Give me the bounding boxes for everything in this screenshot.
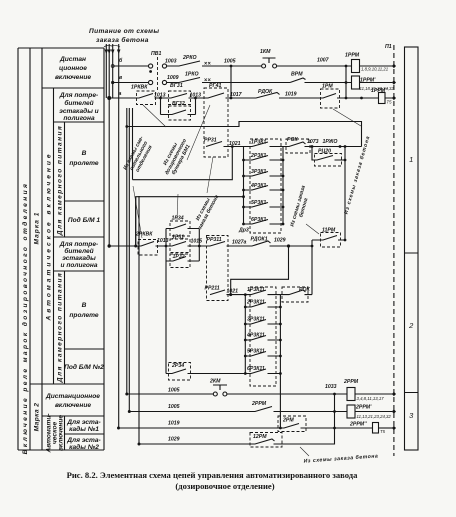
svg-text:Марка 2: Марка 2	[34, 403, 41, 432]
svg-text:1РКВК: 1РКВК	[131, 85, 148, 91]
bus wire 1029 (rung D feed)	[138, 196, 140, 444]
dashed box contact 1РКВК	[137, 91, 156, 105]
annotation: Из схемы заказа бетона (center)	[289, 185, 312, 229]
contact РОК (bank 2)	[280, 290, 312, 295]
supply bus wire 1	[105, 44, 107, 98]
nodes on wire 1073	[231, 145, 346, 148]
link wire rungs A-C right	[334, 394, 336, 428]
contact 5Р3К11	[245, 352, 280, 357]
svg-text:2РКО: 2РКО	[182, 55, 197, 61]
contact 6Р3К1	[244, 220, 284, 225]
contact 1Р3К11	[245, 290, 280, 295]
svg-text:1013: 1013	[157, 238, 169, 244]
supply bus wire 4	[118, 44, 120, 428]
relay coil 2РРМ'	[347, 405, 355, 418]
nodes 11РМ	[311, 239, 347, 248]
svg-text:1Р34: 1Р34	[172, 216, 184, 222]
svg-text:1013: 1013	[154, 92, 166, 98]
feed brace	[104, 45, 120, 47]
contact 2РКО with wire 1003	[167, 61, 262, 66]
dashed box contact РОК (bank 1)	[286, 139, 310, 153]
svg-text:В: В	[82, 150, 87, 157]
svg-text:включение: включение	[58, 415, 65, 451]
wire 1007 to coil 1РРМ	[277, 65, 352, 67]
svg-text:Т5: Т5	[380, 429, 386, 434]
svg-text:1013: 1013	[190, 92, 202, 98]
dashed box contact 1РМ	[321, 89, 340, 108]
svg-text:1РРМ: 1РРМ	[345, 53, 360, 59]
svg-text:2РРМ'': 2РРМ''	[349, 422, 367, 428]
svg-text:РДОК1: РДОК1	[251, 237, 268, 243]
node: rung R2 tap	[111, 81, 114, 84]
svg-text:кады №1: кады №1	[69, 425, 99, 433]
svg-text:1Р3К11: 1Р3К11	[247, 287, 265, 293]
push button 1КМ	[262, 58, 277, 68]
dashed box contact ВГ32	[169, 106, 191, 120]
svg-text:1007: 1007	[317, 58, 330, 64]
svg-text:а: а	[119, 91, 122, 97]
feedback wire rung 4 to node 1021 (bank 2)	[231, 246, 289, 295]
svg-text:РР31: РР31	[204, 138, 217, 144]
svg-text:кады №2: кады №2	[69, 443, 99, 451]
nodes on rung 4	[165, 244, 291, 247]
svg-text:1,8,9,10,11,21: 1,8,9,10,11,21	[361, 67, 389, 72]
table cell: Дистанционное включение (Марка 2)	[45, 393, 100, 409]
svg-text:Дистанционное: Дистанционное	[45, 393, 100, 400]
dashed box contact 2РМ	[278, 416, 306, 432]
dashed box contact РЦ20	[315, 154, 342, 167]
svg-text:1021: 1021	[227, 289, 239, 295]
contact 2РМ on rung C	[119, 424, 373, 429]
svg-text:11,13,21,23,24,32: 11,13,21,23,24,32	[357, 414, 392, 419]
svg-text:Для потре-: Для потре-	[59, 241, 98, 248]
svg-text:2: 2	[408, 321, 414, 330]
svg-text:6Р3К11: 6Р3К11	[247, 366, 265, 372]
switch ПВ1 mechanical link (dashed)	[157, 57, 159, 90]
svg-text:4Р3К1: 4Р3К1	[250, 183, 266, 189]
svg-text:1РРМ': 1РРМ'	[360, 78, 376, 84]
bank 1 right vertical wire	[282, 147, 284, 225]
svg-text:1005: 1005	[168, 388, 180, 394]
dashed box contact 1Р34	[170, 221, 190, 236]
bus connection diamonds	[392, 64, 396, 430]
contact 2РРМ on rung B	[129, 407, 347, 412]
svg-text:2РРМ: 2РРМ	[343, 379, 359, 385]
dashed box contact 1Р31	[170, 239, 190, 253]
wire rung C to right bus	[379, 427, 393, 429]
dashed box contact 11РМ	[321, 233, 341, 248]
contact 4Р3К1	[244, 186, 284, 191]
svg-text:ВГ32: ВГ32	[172, 101, 185, 107]
contact 1РКО aux marks	[205, 79, 211, 81]
push button 2КМ	[213, 385, 227, 396]
svg-text:Для эста-: Для эста-	[66, 437, 101, 444]
wire rung B to right bus	[355, 411, 392, 413]
bank 2 left vertical wire	[244, 295, 246, 374]
contact 2Р3К1	[244, 156, 284, 161]
svg-text:бителей: бителей	[64, 99, 93, 107]
svg-text:эстакады: эстакады	[62, 254, 96, 262]
wire rung R2 left segment	[113, 82, 149, 84]
contact РОК (bank 1) and wire 1073	[283, 142, 362, 147]
relay coil 1РРМ	[352, 60, 360, 73]
svg-text:1009: 1009	[167, 75, 179, 81]
svg-text:В: В	[82, 302, 87, 309]
bus wire 1005 (rung A feed)	[126, 108, 128, 394]
svg-text:1РКО: 1РКО	[185, 72, 199, 78]
svg-text:и полигона: и полигона	[60, 262, 97, 269]
annotation leader lines	[133, 105, 361, 456]
wire rung A to right bus	[355, 393, 392, 395]
wire rung R1 left segment	[113, 65, 149, 67]
wire rung A 1005 left	[127, 393, 214, 395]
supply bus wire 2	[108, 44, 110, 246]
svg-text:ВРМ: ВРМ	[291, 72, 303, 78]
svg-text:полигона: полигона	[63, 115, 95, 122]
relay coil 1РРМ''	[379, 93, 386, 104]
svg-text:эстакады и: эстакады и	[59, 107, 98, 115]
svg-text:(дозировочное отделение): (дозировочное отделение)	[175, 481, 274, 491]
link wire 11РМ to РОК bank 2	[311, 240, 313, 295]
svg-text:4Р3К11: 4Р3К11	[246, 333, 265, 339]
wire rung R1 to right bus	[360, 65, 393, 67]
svg-text:ционное: ционное	[59, 65, 87, 72]
dashed box contact РОК (bank 2)	[282, 287, 308, 302]
svg-text:6Р3К1: 6Р3К1	[251, 217, 266, 223]
wire and component reference labels	[131, 44, 392, 443]
node 1005 on rung R1	[230, 65, 233, 68]
node: rung B tap	[128, 410, 131, 413]
node: rung C tap	[117, 427, 120, 430]
svg-text:1019: 1019	[285, 92, 297, 98]
svg-text:3Р3К11: 3Р3К11	[247, 317, 265, 323]
dashed box contact ВГ31	[169, 91, 191, 105]
annotation: Из схемы заказа бетона (left)	[192, 191, 220, 230]
svg-text:1033: 1033	[325, 384, 337, 390]
svg-text:включение: включение	[55, 402, 91, 409]
svg-text:2РРМ: 2РРМ	[251, 401, 267, 407]
svg-text:включение: включение	[55, 74, 91, 81]
contact 2Р34 chain to bank 2 row 6	[166, 261, 245, 374]
relay coil 1РРМ'	[352, 76, 360, 89]
bus wire 1005 (rung B feed)	[128, 108, 130, 412]
contact 12РМ on rung D	[139, 428, 335, 444]
bus wire feed W2	[132, 108, 134, 180]
dashed box contact 12РМ	[250, 433, 282, 448]
svg-text:3Р3К1: 3Р3К1	[251, 169, 266, 175]
contact ВГ32 parallel branch	[161, 98, 196, 115]
svg-text:1Р3К1: 1Р3К1	[251, 140, 266, 146]
switch ПВ1 pole 1 terminals	[149, 64, 167, 68]
table cell: Для эстакады №2	[66, 437, 101, 451]
table cell: Для потребителей эстакады и полигона (1)	[59, 92, 99, 122]
svg-text:1073: 1073	[307, 139, 319, 145]
svg-text:1Р32: 1Р32	[173, 254, 185, 260]
dashed box РГ41-РР31 group	[204, 88, 228, 157]
svg-text:бителей: бителей	[64, 247, 93, 255]
node: rung R1 tap (circle)	[111, 65, 114, 68]
bank 2 right vertical wire	[279, 295, 281, 428]
dashed box contact 1Р32	[170, 254, 190, 268]
svg-text:1029: 1029	[274, 238, 286, 244]
nodes on rung R3	[159, 97, 363, 100]
contact 2РКО aux marks	[205, 62, 211, 64]
svg-text:1029: 1029	[168, 437, 180, 443]
svg-text:1017: 1017	[230, 92, 243, 98]
svg-text:пролете: пролете	[69, 160, 99, 167]
svg-text:ПВ1: ПВ1	[151, 51, 161, 57]
svg-text:РДОК: РДОК	[258, 89, 273, 95]
contacts 2РКВК, 1Р31, РР311, РДОК1 on rung 4	[109, 241, 312, 246]
contact 1РКО with wire 1009	[167, 78, 290, 83]
contact 3Р3К11	[245, 320, 280, 325]
svg-text:Включение реле марок дозировоч: Включение реле марок дозировочного отдел…	[21, 182, 29, 455]
contact 1Р34 parallel branch above	[166, 224, 199, 246]
table cell: Дистанционное включение (Марка 1)	[55, 56, 91, 81]
svg-text:2Р3К11: 2Р3К11	[246, 300, 265, 306]
svg-text:5Р3К1: 5Р3К1	[251, 200, 266, 206]
svg-text:заказа бетона: заказа бетона	[96, 36, 149, 44]
nodes on link wire	[345, 65, 348, 84]
contact 2Р3К11	[245, 303, 280, 308]
contact 1РКВК / contact ВГ31 / contact РГ41 / contact РДОК rung R3	[109, 93, 392, 99]
annotation: Из схемы смесительного отделения	[122, 135, 156, 177]
svg-text:5Р3К11: 5Р3К11	[247, 349, 265, 355]
link wire РЦ20 to 11РМ	[344, 147, 346, 241]
svg-text:Для камерного питания: Для камерного питания	[57, 272, 64, 383]
wire W1 from bus to node 1073	[127, 122, 362, 147]
svg-text:11,18,21,23,24,32: 11,18,21,23,24,32	[360, 86, 395, 91]
svg-text:Для потре-: Для потре-	[59, 92, 98, 99]
svg-text:12РМ: 12РМ	[253, 434, 267, 440]
table column label: Автоматическое включение (Марка 2)	[46, 413, 65, 453]
svg-text:2Р34: 2Р34	[171, 363, 184, 369]
zone bar	[405, 47, 419, 450]
wire W3 from rung 4 to bank 1	[136, 197, 244, 246]
svg-text:Автоматическое включение: Автоматическое включение	[45, 151, 52, 321]
svg-text:Марка 1: Марка 1	[34, 212, 41, 245]
svg-text:1005: 1005	[168, 404, 180, 410]
svg-text:1005: 1005	[224, 59, 236, 65]
svg-text:1Р31: 1Р31	[172, 234, 184, 240]
dashed box bank 1 contacts	[250, 139, 281, 233]
svg-text:РР311: РР311	[207, 237, 222, 243]
wire rung R2 to right bus	[360, 82, 393, 84]
feed arrows onto supply buses	[105, 50, 121, 55]
contact 5Р3К1	[244, 203, 284, 208]
svg-text:1РЖО: 1РЖО	[323, 139, 338, 145]
link wire rungs R1-R3 right	[345, 66, 347, 98]
switch ПВ1 pole 2 terminals	[149, 80, 167, 84]
svg-text:Рис. 8.2. Элементная схема цеп: Рис. 8.2. Элементная схема цепей управле…	[67, 470, 359, 480]
dashed box bank 2 contacts	[250, 287, 276, 386]
annotation: Из схемы заказа бетона (right)	[342, 135, 371, 215]
svg-text:3,4,8,11,13,17: 3,4,8,11,13,17	[357, 396, 385, 401]
table cell: Для потребителей эстакады и полигона (2)	[59, 241, 98, 269]
svg-text:1027а: 1027а	[232, 240, 247, 246]
node РЦ20 output	[344, 159, 347, 162]
dashed box contact 2Р34	[169, 363, 191, 381]
contact РР31 and wire 1021	[206, 142, 244, 147]
svg-text:Питание от схемы: Питание от схемы	[89, 28, 159, 35]
relay coil 2РРМ	[347, 388, 355, 401]
nodes bottom link wire	[279, 393, 336, 430]
svg-text:пролете: пролете	[69, 312, 99, 319]
node: W1 tap	[125, 125, 128, 128]
svg-text:1003: 1003	[165, 59, 177, 65]
svg-text:1КМ: 1КМ	[260, 49, 271, 55]
dashed box РР311-РР211 group	[207, 236, 229, 301]
contact 1Р3К1	[244, 142, 284, 147]
node: W3 junction on rung 4	[134, 245, 137, 248]
svg-text:11РМ: 11РМ	[322, 228, 336, 234]
switch ПВ1 blade dot	[149, 70, 152, 73]
wire 1033 to coil 2РРМ	[227, 393, 347, 395]
bank 2 junction nodes	[244, 293, 282, 375]
supply bus wire 3	[112, 44, 114, 98]
table cell: В пролете (1)	[69, 150, 99, 167]
node: rung A tap	[125, 393, 128, 396]
svg-text:Дистан: Дистан	[59, 56, 86, 63]
svg-text:1021: 1021	[229, 141, 241, 147]
table cell: В пролете (2)	[69, 302, 99, 319]
contact 3Р3К1	[244, 172, 284, 177]
contact 6Р3К11	[245, 369, 280, 374]
table frame outer and column lines	[18, 48, 104, 450]
svg-text:в: в	[119, 75, 122, 81]
svg-text:РЦ20: РЦ20	[318, 149, 331, 155]
svg-text:ВГ31: ВГ31	[170, 83, 183, 89]
svg-text:Под Б/М 1: Под Б/М 1	[68, 216, 101, 224]
contact РР211 and node 1021	[210, 290, 245, 295]
contact РЦ20 branch	[312, 147, 345, 161]
relay coil 2РРМ''	[373, 423, 379, 434]
svg-text:РОК: РОК	[287, 137, 298, 143]
svg-text:РР211: РР211	[205, 286, 220, 292]
right control bus (dashed)	[393, 45, 395, 456]
svg-text:2КМ: 2КМ	[209, 379, 221, 385]
svg-text:2РМ: 2РМ	[282, 418, 294, 424]
annotation: Из схемы заказа бетона (bottom)	[303, 452, 378, 464]
svg-text:1015: 1015	[191, 239, 203, 245]
svg-text:П1: П1	[385, 44, 392, 50]
svg-text:Под Б/М №2: Под Б/М №2	[64, 363, 104, 371]
node: rung R3 tap	[107, 96, 111, 100]
svg-text:Для камерного питания: Для камерного питания	[57, 125, 64, 236]
svg-text:Т5: Т5	[387, 100, 393, 105]
contact 1Р32 parallel branch below	[166, 246, 199, 261]
svg-text:РГ41: РГ41	[209, 83, 222, 89]
contact 4Р3К11	[245, 336, 280, 341]
svg-text:Для эста-: Для эста-	[66, 419, 101, 426]
dashed box contact 2РКВК	[138, 240, 158, 256]
bank 1 junction nodes	[242, 159, 284, 226]
svg-text:1РМ: 1РМ	[322, 84, 333, 90]
node 1005-1017 link wire	[230, 66, 232, 98]
svg-text:1019: 1019	[168, 421, 180, 427]
svg-text:2РРМ': 2РРМ'	[355, 405, 372, 411]
svg-text:Др3: Др3	[238, 228, 249, 234]
node: rung D tap	[138, 443, 141, 446]
annotation: Из схемы дозировочного бункера БМ1	[159, 135, 193, 178]
wire W2 from bus to node 1021	[133, 147, 233, 180]
svg-text:2РКВК: 2РКВК	[135, 232, 153, 238]
svg-text:1: 1	[409, 155, 413, 164]
contact ВРМ	[290, 78, 352, 83]
bank 1 left vertical wire	[243, 147, 245, 225]
svg-text:2Р3К1: 2Р3К1	[250, 153, 266, 159]
bus wire W3 riser	[135, 197, 137, 246]
contact 11РМ branch	[312, 236, 345, 241]
feed label: Питание от схемы заказа бетона	[89, 28, 159, 44]
node: rung 4 tap	[108, 244, 111, 247]
table cell: Для эстакады №1	[66, 419, 101, 433]
svg-text:РОК: РОК	[299, 287, 310, 293]
